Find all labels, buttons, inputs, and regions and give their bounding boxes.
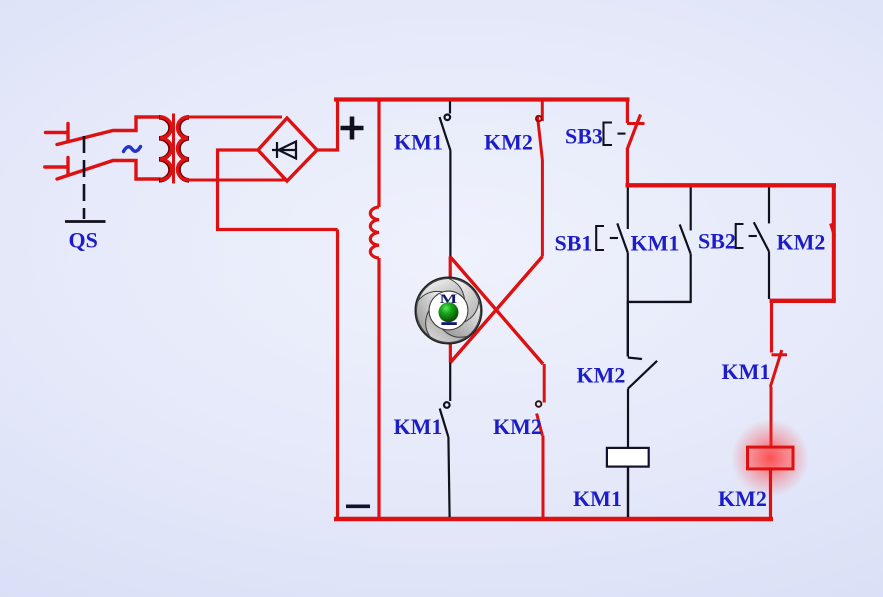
svg-text:KM1: KM1 [722, 359, 771, 384]
field winding inductor [370, 207, 379, 258]
coil KM1 bottom lead [627, 467, 629, 517]
motor M icon [415, 277, 481, 343]
SB3 actuator [604, 123, 626, 146]
wire down to KM2 NC [627, 302, 629, 357]
disconnect switch QS pole 1 blade [57, 117, 160, 145]
disconnect switch QS pole 1 lead [46, 124, 69, 142]
SB3 lower lead [626, 148, 629, 187]
bridge rectifier VC diamond [258, 118, 317, 181]
transformer T secondary winding shadow [179, 117, 190, 180]
svg-text:SB2: SB2 [698, 229, 736, 254]
contactor KM1 main contact top (open) [440, 102, 451, 257]
svg-text:KM1: KM1 [394, 130, 443, 155]
svg-text:KM2: KM2 [577, 363, 626, 388]
left negative rail [336, 230, 339, 520]
wire down to KM1 NC [770, 301, 773, 353]
SB3 contact seat bar [627, 122, 645, 125]
energized glow around KM2 coil [731, 419, 809, 497]
contact hinge circle KM2 bottom [536, 401, 542, 407]
contact hinge circle KM2 top [536, 116, 542, 122]
field winding rail top [377, 100, 380, 208]
minus terminal symbol [346, 504, 370, 508]
svg-text:KM2: KM2 [718, 486, 767, 511]
right control rail down [832, 185, 836, 301]
SB3 blade (closed NC) [627, 115, 640, 150]
interlock contact KM2 NC (black) [628, 358, 657, 448]
transformer T secondary winding [178, 117, 189, 180]
svg-text:KM2: KM2 [493, 414, 542, 439]
interlock contact KM1 NC (red, closed) [770, 350, 787, 447]
armature rail through motor [449, 257, 452, 363]
stop button SB3 lead from bus [626, 100, 629, 124]
svg-text:SB3: SB3 [565, 124, 603, 149]
SB1 actuator [596, 226, 618, 250]
armature cross wire 1 [450, 257, 543, 365]
contactor KM2 main contact top (closed) [537, 102, 542, 257]
start button SB1 (NO, open) [617, 188, 628, 302]
svg-text:KM1: KM1 [573, 486, 622, 511]
wire rectifier + output to top bus [317, 100, 338, 151]
disconnect switch QS pole 2 blade [57, 161, 160, 180]
coil KM2 (energized) [748, 447, 794, 469]
wire rectifier - output return [218, 150, 338, 230]
transformer T core [172, 114, 175, 184]
field winding rail bottom [377, 258, 380, 519]
svg-text:KM1: KM1 [631, 231, 680, 256]
svg-text:KM2: KM2 [484, 130, 533, 155]
AC tilde symbol [124, 147, 141, 152]
wire secondary bottom to rectifier AC bottom [188, 179, 286, 182]
disconnect switch QS pole 2 lead [45, 158, 68, 176]
svg-text:SB1: SB1 [555, 231, 593, 256]
rectifier diode symbol [272, 142, 297, 159]
QS mechanical linkage (dashed) [83, 136, 86, 219]
svg-text:KM2: KM2 [777, 230, 826, 255]
transformer T primary winding [160, 117, 172, 180]
bottom DC bus (-) [334, 517, 773, 521]
plus terminal symbol [341, 117, 364, 140]
svg-text:KM1: KM1 [394, 414, 443, 439]
junction bar SB2/KM2aux [770, 299, 836, 303]
start button SB2 (NO, open) [754, 188, 769, 300]
transformer T primary winding shadow [159, 117, 171, 180]
svg-text:QS: QS [69, 228, 98, 253]
auxiliary contact KM1 (NO, open) [680, 188, 691, 302]
contactor KM1 main contact bottom (open) [440, 363, 451, 518]
coil KM2 bottom lead [769, 469, 772, 519]
SB2 actuator [736, 224, 757, 248]
junction bar SB1/KM1aux [627, 301, 692, 303]
control bus [626, 183, 837, 187]
QS earth bar [65, 220, 106, 223]
contactor KM2 main contact bottom (closed) [537, 364, 545, 517]
coil KM1 [607, 448, 649, 467]
armature cross wire 2 [450, 257, 542, 363]
wire secondary top to rectifier AC top [188, 116, 282, 119]
KM2 aux contact blade (closed) on right rail [831, 224, 835, 237]
top DC bus (+) [334, 97, 630, 101]
